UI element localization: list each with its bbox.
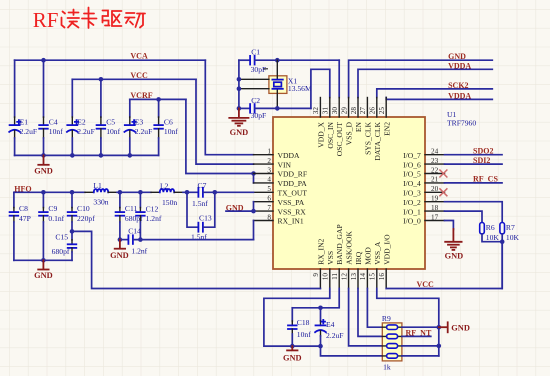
pin 26 DATA_CLK xyxy=(376,98,378,118)
inductor L1 xyxy=(85,181,117,207)
svg-text:15: 15 xyxy=(369,273,377,281)
svg-text:17: 17 xyxy=(431,213,439,221)
svg-text:VCC: VCC xyxy=(417,280,435,289)
svg-text:VDD_X: VDD_X xyxy=(316,121,325,147)
pin 19 I/O_2 xyxy=(425,201,445,203)
crystal X1 xyxy=(239,60,312,108)
svg-text:1k: 1k xyxy=(383,363,391,372)
node xyxy=(237,86,242,91)
wire (R9 row1 to gnd port) xyxy=(402,326,439,328)
pin 1 VDDA xyxy=(254,154,274,156)
wire (GND to VSS_RX pin7) xyxy=(226,210,254,212)
svg-text:24: 24 xyxy=(431,148,439,156)
svg-text:I/O_2: I/O_2 xyxy=(403,198,421,207)
title glyph 卡 xyxy=(82,8,97,29)
svg-text:E3: E3 xyxy=(135,117,144,126)
resistor pack R9 xyxy=(382,314,402,371)
wire (VDDA to EN2 pin25) xyxy=(386,98,492,100)
svg-text:16: 16 xyxy=(378,273,386,281)
ground (under C18) xyxy=(283,346,302,362)
svg-text:C1: C1 xyxy=(251,48,260,57)
svg-text:32: 32 xyxy=(312,107,320,115)
pin 3 VDD_RF xyxy=(254,173,274,175)
pin 28 EN xyxy=(357,98,359,118)
svg-text:GND: GND xyxy=(34,271,53,280)
svg-text:22: 22 xyxy=(431,166,439,174)
pin 21 I/O_4 xyxy=(425,182,445,184)
node xyxy=(275,106,280,111)
pin 13 IRQ xyxy=(357,269,359,289)
svg-text:C15: C15 xyxy=(55,233,68,242)
svg-text:10nf: 10nf xyxy=(297,330,311,339)
svg-text:RX_IN1: RX_IN1 xyxy=(278,217,304,226)
capacitor E1 xyxy=(9,60,37,155)
node xyxy=(70,190,75,195)
svg-text:TRF7960: TRF7960 xyxy=(447,119,476,128)
node xyxy=(213,190,218,195)
svg-text:VDD_RF: VDD_RF xyxy=(278,170,308,179)
node xyxy=(99,77,104,82)
pin 16 VDD_I/O xyxy=(385,269,387,289)
wire (GND to VSS_D pin29) xyxy=(349,60,493,97)
pin 24 I/O_7 xyxy=(425,154,445,156)
svg-text:I/O_0: I/O_0 xyxy=(403,217,421,226)
pin 15 VSS_A xyxy=(376,269,378,289)
capacitor C18 xyxy=(288,308,311,346)
svg-text:ASK/OOK: ASK/OOK xyxy=(345,231,354,265)
node xyxy=(251,209,256,214)
svg-text:C12: C12 xyxy=(146,205,159,214)
inductor L2 xyxy=(151,181,183,207)
node xyxy=(237,106,242,111)
svg-text:21: 21 xyxy=(431,176,439,184)
pin 8 RX_IN1 xyxy=(254,220,274,222)
pin 18 I/O_1 xyxy=(425,210,445,212)
svg-text:E2: E2 xyxy=(77,117,86,126)
svg-text:680pf: 680pf xyxy=(52,247,70,256)
svg-text:8: 8 xyxy=(267,213,271,221)
wire xyxy=(183,191,198,193)
svg-text:1.5nf: 1.5nf xyxy=(192,199,208,208)
capacitor C13 xyxy=(187,192,215,241)
wire (pin13 to R9 row2) xyxy=(358,289,382,337)
pin 31 OSC_IN xyxy=(329,98,331,118)
pin 23 I/O_6 xyxy=(425,163,445,165)
wire xyxy=(15,59,206,61)
node xyxy=(185,190,190,195)
pin 12 ASK/OOK xyxy=(348,269,350,289)
capacitor E4 xyxy=(315,308,343,346)
svg-text:27: 27 xyxy=(359,107,367,115)
svg-text:L2: L2 xyxy=(160,181,169,190)
pin 2 VIN xyxy=(254,163,274,165)
svg-text:C2: C2 xyxy=(251,96,260,105)
svg-text:0.1nf: 0.1nf xyxy=(48,214,64,223)
node xyxy=(128,153,133,158)
wire xyxy=(117,191,151,193)
svg-text:2.2uF: 2.2uF xyxy=(135,127,153,136)
pin 10 VSS xyxy=(329,269,331,289)
svg-text:VSS: VSS xyxy=(326,251,335,265)
wire (gnd vertical right of R9) xyxy=(438,327,440,356)
svg-text:18: 18 xyxy=(431,204,439,212)
wire (pin16 VCC) xyxy=(386,242,502,289)
pin 32 VDD_X xyxy=(319,98,321,118)
svg-text:3: 3 xyxy=(267,166,271,174)
svg-text:C5: C5 xyxy=(106,117,115,126)
svg-text:E4: E4 xyxy=(326,320,335,329)
svg-text:330n: 330n xyxy=(93,198,108,207)
capacitor C1 xyxy=(239,48,339,74)
node xyxy=(290,344,295,349)
svg-text:10nf: 10nf xyxy=(106,127,120,136)
wire (C14 to RX_IN1 pin8) xyxy=(253,221,255,240)
wire (C1 left rail) xyxy=(238,60,240,108)
svg-text:SYS_CLK: SYS_CLK xyxy=(364,121,373,154)
svg-text:30pF: 30pF xyxy=(251,111,267,120)
svg-text:I/O_3: I/O_3 xyxy=(403,189,421,198)
capacitor C10 xyxy=(68,192,95,231)
svg-text:C4: C4 xyxy=(49,117,58,126)
pin 27 SYS_CLK xyxy=(366,98,368,118)
svg-text:I/O_1: I/O_1 xyxy=(403,207,421,216)
svg-text:23: 23 xyxy=(431,157,439,165)
svg-text:C9: C9 xyxy=(48,204,57,213)
wire (pin11 to C18/E4 rail) xyxy=(292,289,339,308)
svg-text:25: 25 xyxy=(378,107,386,115)
svg-text:GND: GND xyxy=(34,166,53,175)
svg-text:I/O_6: I/O_6 xyxy=(403,160,421,169)
wire (pin21 RF_CS) xyxy=(445,182,503,184)
pin 14 MOD xyxy=(366,269,368,289)
resistor R7 xyxy=(500,223,520,243)
wire (VDDA to EN pin28) xyxy=(358,69,492,97)
svg-text:C8: C8 xyxy=(19,204,28,213)
svg-text:13: 13 xyxy=(350,273,358,281)
wire xyxy=(196,79,254,164)
svg-text:C10: C10 xyxy=(77,204,90,213)
pin 11 BAND_GAP xyxy=(338,269,340,289)
node xyxy=(118,190,123,195)
svg-text:VIN: VIN xyxy=(278,160,292,169)
node xyxy=(41,258,46,263)
wire (SCK2 to DATA_CLK pin26) xyxy=(377,89,493,98)
svg-text:220pf: 220pf xyxy=(77,214,95,223)
svg-text:14: 14 xyxy=(359,273,367,281)
svg-text:10nf: 10nf xyxy=(164,127,178,136)
resistor R6 xyxy=(480,223,500,243)
svg-text:VSS_A: VSS_A xyxy=(373,241,382,265)
wire (pin18 to R6) xyxy=(445,211,483,223)
svg-text:9: 9 xyxy=(312,273,320,277)
node xyxy=(251,171,256,176)
pin 29 VSS_D xyxy=(348,98,350,118)
pin 5 TX_OUT xyxy=(254,191,274,193)
svg-text:2.2uF: 2.2uF xyxy=(20,127,38,136)
wire (pin6 to pin7) xyxy=(253,202,255,211)
capacitor C15 xyxy=(52,231,77,260)
IC U1 TRF7960 xyxy=(273,117,425,269)
capacitor C9 xyxy=(39,192,65,260)
capacitor C14 xyxy=(120,226,254,255)
svg-text:28: 28 xyxy=(350,107,358,115)
node xyxy=(118,237,123,242)
svg-text:5: 5 xyxy=(267,185,271,193)
title glyph 驱 xyxy=(103,11,122,27)
node xyxy=(138,190,143,195)
svg-text:1.2nf: 1.2nf xyxy=(131,247,147,256)
ground (under C9 rail) xyxy=(34,260,53,280)
pin 6 VSS_PA xyxy=(254,201,274,203)
svg-text:I/O_4: I/O_4 xyxy=(403,179,421,188)
wire (pin14 to R9 row1) xyxy=(367,289,382,328)
svg-text:31: 31 xyxy=(322,107,330,115)
wire (pin23 SDI2) xyxy=(445,163,503,165)
svg-text:GND: GND xyxy=(110,251,129,260)
ground (under C11/C14) xyxy=(110,240,129,260)
node xyxy=(237,77,242,82)
svg-text:DATA_CLK: DATA_CLK xyxy=(373,121,382,160)
svg-text:C13: C13 xyxy=(199,213,212,222)
wire xyxy=(130,98,186,100)
svg-text:47P: 47P xyxy=(19,214,31,223)
svg-text:VDD_PA: VDD_PA xyxy=(278,179,308,188)
svg-text:C18: C18 xyxy=(297,318,310,327)
wire xyxy=(253,174,255,183)
svg-text:GND: GND xyxy=(445,252,464,261)
svg-text:I/O_5: I/O_5 xyxy=(403,170,421,179)
node xyxy=(138,237,143,242)
capacitor C2 xyxy=(239,96,311,120)
svg-text:VDD_I/O: VDD_I/O xyxy=(382,234,391,265)
node xyxy=(41,190,46,195)
ground (power rail) xyxy=(34,155,53,175)
svg-text:L1: L1 xyxy=(93,181,102,190)
svg-text:6: 6 xyxy=(267,195,271,203)
capacitor C7 xyxy=(192,181,254,208)
no-connect X pin20 xyxy=(439,188,447,196)
wire (R9 row2 RF_NT) xyxy=(402,335,431,337)
wire xyxy=(186,99,254,173)
capacitor C5 xyxy=(97,79,121,155)
capacitor C6 xyxy=(154,99,178,155)
svg-text:R6: R6 xyxy=(486,223,495,232)
svg-text:150n: 150n xyxy=(162,198,177,207)
capacitor E3 xyxy=(124,99,152,155)
svg-text:2.2uF: 2.2uF xyxy=(77,127,95,136)
wire (R6 bottom to R7 bottom) xyxy=(482,234,502,242)
svg-text:RF: RF xyxy=(33,8,59,32)
svg-text:BAND_GAP: BAND_GAP xyxy=(335,224,344,265)
pin 4 VDD_PA xyxy=(254,182,274,184)
ground (under X1) xyxy=(229,108,248,137)
wire (R7 bottom to VCC) xyxy=(501,234,503,289)
svg-text:30pF: 30pF xyxy=(251,65,267,74)
svg-text:30: 30 xyxy=(331,107,339,115)
svg-text:C7: C7 xyxy=(198,181,207,190)
svg-text:EN2: EN2 xyxy=(382,122,391,136)
svg-text:10K: 10K xyxy=(506,233,520,242)
svg-text:VSS_RX: VSS_RX xyxy=(278,207,307,216)
svg-text:7: 7 xyxy=(267,204,271,212)
node xyxy=(437,325,442,330)
svg-text:GND: GND xyxy=(283,353,302,362)
wire (R9 row3 to gnd vertical) xyxy=(402,345,439,347)
svg-text:IRQ: IRQ xyxy=(354,251,363,265)
wire (cap bottom rail) xyxy=(15,154,159,156)
svg-text:E1: E1 xyxy=(20,117,29,126)
svg-text:VSS_D: VSS_D xyxy=(345,121,354,145)
wire (TX row left) xyxy=(14,191,85,193)
wire (pin19 to R7) xyxy=(445,202,503,223)
svg-text:EN: EN xyxy=(354,121,363,132)
wire (C2 to OSC_IN pin31) xyxy=(311,69,330,108)
capacitor E2 xyxy=(67,79,95,155)
wire (pin12 to R9 row3) xyxy=(349,289,383,346)
svg-text:1.2nf: 1.2nf xyxy=(146,214,162,223)
svg-text:VDDA: VDDA xyxy=(278,151,300,160)
pin 7 VSS_RX xyxy=(254,210,274,212)
wire (C1 to OSC_OUT pin30) xyxy=(338,60,340,97)
pin 25 EN2 xyxy=(385,98,387,118)
wire (pin24 SDO2) xyxy=(445,154,503,156)
ground (bar port near R9) xyxy=(439,322,470,332)
wire (pin17 to ground) xyxy=(445,221,454,230)
pin 22 I/O_5 xyxy=(425,173,445,175)
node xyxy=(70,153,75,158)
wire (R9 row4 to gnd vertical) xyxy=(402,355,439,357)
svg-text:4: 4 xyxy=(267,176,271,184)
node xyxy=(41,58,46,63)
pin 9 RX_IN2 xyxy=(319,269,321,289)
svg-text:R9: R9 xyxy=(382,314,391,323)
ground (pin17 earth) xyxy=(445,229,464,261)
wire (shunt bottom rail) xyxy=(14,259,72,261)
svg-text:10nf: 10nf xyxy=(49,127,63,136)
wire xyxy=(72,78,196,80)
svg-text:I/O_7: I/O_7 xyxy=(403,151,421,160)
wire (C10/C15 tap to RX_IN2) xyxy=(72,231,320,288)
svg-text:2.2uF: 2.2uF xyxy=(326,331,344,340)
node xyxy=(156,97,161,102)
svg-text:10: 10 xyxy=(322,273,330,281)
node xyxy=(70,229,75,234)
capacitor C8 xyxy=(10,192,31,260)
pin 17 I/O_0 xyxy=(425,220,445,222)
svg-text:R7: R7 xyxy=(506,223,515,232)
svg-text:C14: C14 xyxy=(128,226,141,235)
node xyxy=(437,344,442,349)
wire xyxy=(205,60,253,155)
capacitor C12 xyxy=(136,192,162,239)
node xyxy=(275,58,280,63)
svg-text:TX_OUT: TX_OUT xyxy=(278,189,308,198)
svg-text:11: 11 xyxy=(331,273,339,280)
node xyxy=(99,153,104,158)
capacitor C4 xyxy=(39,60,63,155)
svg-text:GND: GND xyxy=(230,128,249,137)
pin 20 I/O_3 xyxy=(425,191,445,193)
pin 30 OSC_OUT xyxy=(338,98,340,118)
node xyxy=(41,153,46,158)
svg-text:C6: C6 xyxy=(164,117,173,126)
no-connect X pin22 xyxy=(439,170,447,178)
svg-text:19: 19 xyxy=(431,195,439,203)
wire (pin15 to gnd port) xyxy=(377,289,439,328)
svg-text:VSS_PA: VSS_PA xyxy=(278,198,305,207)
node xyxy=(318,344,323,349)
svg-text:20: 20 xyxy=(431,185,439,193)
node xyxy=(318,306,323,311)
svg-text:12: 12 xyxy=(340,273,348,281)
svg-text:2: 2 xyxy=(267,157,271,165)
svg-text:VCA: VCA xyxy=(130,52,148,61)
svg-text:MOD: MOD xyxy=(364,247,373,265)
capacitor C11 xyxy=(116,192,143,239)
svg-text:26: 26 xyxy=(369,107,377,115)
svg-text:1: 1 xyxy=(267,148,271,156)
title glyph 动 xyxy=(125,13,145,28)
node xyxy=(500,239,505,244)
wire (E4 bottom to R9 row4) xyxy=(321,346,383,356)
svg-text:29: 29 xyxy=(340,107,348,115)
title glyph 读 xyxy=(62,10,80,28)
svg-text:GND: GND xyxy=(451,324,470,333)
svg-text:13.56M: 13.56M xyxy=(288,84,312,93)
svg-text:OSC_IN: OSC_IN xyxy=(326,121,335,148)
svg-text:RX_IN2: RX_IN2 xyxy=(316,238,325,264)
svg-text:OSC_OUT: OSC_OUT xyxy=(335,122,344,157)
wire (pin10 route to gnd rail) xyxy=(264,289,330,347)
